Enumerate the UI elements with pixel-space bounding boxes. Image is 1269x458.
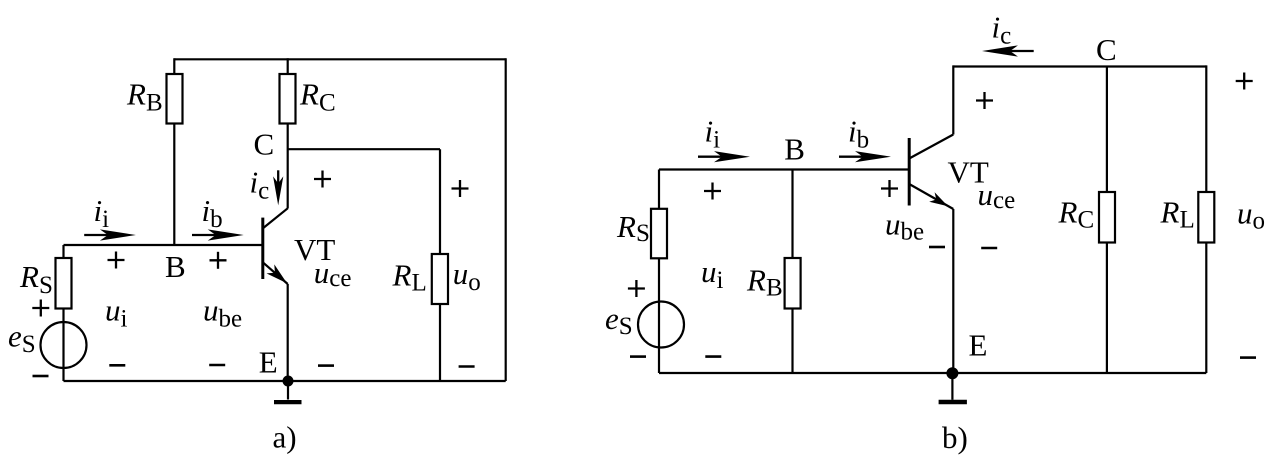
plus uo circuit a	[452, 180, 469, 197]
svg-text:ic: ic	[992, 10, 1012, 50]
svg-text:ube: ube	[885, 207, 924, 246]
current arrow ii circuit a	[84, 229, 136, 240]
svg-text:RS: RS	[616, 209, 650, 247]
minus ui circuit a	[109, 364, 125, 367]
svg-text:uce: uce	[978, 177, 1016, 214]
svg-text:eS: eS	[8, 318, 36, 358]
plus uo circuit b	[1236, 73, 1253, 90]
wire RL branch circuit b	[1205, 65, 1207, 373]
resistor RS circuit a	[56, 258, 72, 309]
svg-text:B: B	[784, 132, 805, 167]
node E dot circuit a	[283, 376, 294, 387]
wire RB branch circuit b	[791, 170, 793, 374]
plus ui circuit a	[108, 252, 125, 269]
svg-text:ib: ib	[202, 193, 223, 233]
plus eS circuit b	[628, 280, 645, 297]
wire source branch circuit a	[62, 245, 64, 381]
current arrow ib circuit a	[192, 229, 244, 240]
wire base input circuit a	[64, 244, 263, 246]
resistor RL circuit b	[1198, 192, 1214, 243]
source eS circle circuit a	[41, 322, 87, 368]
current arrow ii circuit b	[698, 151, 750, 162]
svg-text:ic: ic	[250, 165, 270, 205]
wire right branch circuit a	[505, 58, 507, 381]
svg-text:RB: RB	[126, 77, 163, 117]
svg-text:RC: RC	[299, 77, 336, 117]
svg-text:C: C	[1096, 32, 1117, 67]
svg-text:RL: RL	[392, 258, 427, 297]
wire RC collector branch circuit a	[287, 58, 289, 208]
wire base input circuit b	[659, 168, 909, 170]
svg-text:ii: ii	[705, 114, 721, 154]
plus eS circuit a	[32, 300, 49, 317]
svg-text:ii: ii	[94, 193, 110, 233]
wire RL branch circuit a	[439, 149, 441, 381]
transistor VT circuit a	[263, 208, 288, 284]
svg-text:b): b)	[942, 420, 968, 455]
source eS circle circuit b	[638, 302, 684, 348]
resistor RS circuit b	[651, 209, 667, 258]
wire top rail circuit a	[174, 58, 505, 60]
svg-text:ib: ib	[848, 114, 869, 154]
svg-text:RL: RL	[1160, 195, 1195, 234]
svg-text:uo: uo	[453, 256, 481, 296]
minus uce circuit b	[981, 247, 997, 250]
plus uce circuit b	[976, 92, 993, 109]
svg-text:eS: eS	[605, 301, 633, 340]
wire node C to RL circuit a	[288, 148, 440, 150]
wire top rail circuit b	[953, 65, 1206, 67]
resistor RB circuit a	[167, 74, 183, 124]
svg-text:B: B	[165, 249, 186, 284]
plus ui circuit b	[704, 183, 721, 200]
svg-text:RS: RS	[19, 259, 53, 299]
minus uce circuit a	[318, 364, 334, 367]
current arrow ic circuit b pointing left	[982, 45, 1034, 56]
svg-text:C: C	[254, 127, 275, 162]
wire bottom rail circuit b	[659, 372, 1206, 374]
current arrow ib circuit b	[839, 151, 891, 162]
svg-text:a): a)	[273, 420, 297, 455]
wire emitter branch circuit a	[287, 284, 289, 381]
transistor VT circuit b	[909, 135, 953, 210]
plus ube circuit a	[210, 252, 227, 269]
resistor RC circuit b	[1099, 192, 1115, 243]
wire collector branch circuit b	[952, 65, 954, 134]
svg-text:RC: RC	[1058, 195, 1095, 234]
svg-text:E: E	[259, 345, 278, 380]
wire bottom rail circuit a	[64, 380, 506, 382]
current arrow ic circuit a	[273, 170, 283, 205]
ground circuit a	[274, 381, 302, 402]
plus ube circuit b	[881, 180, 898, 197]
plus uce circuit a	[314, 171, 331, 188]
resistor RL circuit a	[432, 254, 448, 304]
wire RC branch circuit b	[1106, 67, 1108, 374]
svg-text:E: E	[969, 328, 988, 363]
minus eS circuit b	[630, 355, 646, 358]
wire emitter branch circuit b	[952, 209, 954, 373]
wire RB branch circuit a	[173, 58, 175, 245]
resistor RB circuit b	[785, 258, 801, 309]
wire source branch circuit b	[658, 170, 660, 374]
minus uo circuit a	[459, 365, 475, 368]
svg-text:ui: ui	[105, 293, 128, 333]
minus ui circuit b	[705, 355, 721, 358]
resistor RC circuit a	[280, 74, 296, 124]
svg-text:ube: ube	[203, 293, 242, 333]
node E dot circuit b	[946, 367, 958, 379]
minus uo circuit b	[1240, 356, 1256, 359]
svg-text:uo: uo	[1237, 196, 1265, 235]
minus ube circuit b	[929, 246, 945, 249]
svg-text:ui: ui	[701, 254, 724, 294]
svg-text:RB: RB	[746, 263, 783, 302]
minus eS circuit a	[33, 375, 49, 378]
ground circuit b	[939, 373, 967, 402]
minus ube circuit a	[209, 364, 225, 367]
